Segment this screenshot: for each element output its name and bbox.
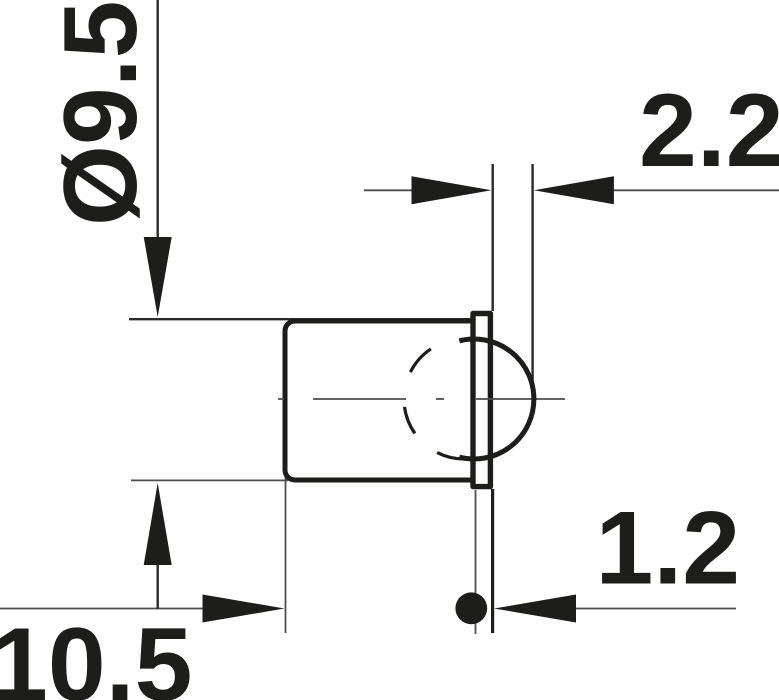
svg-text:10.5: 10.5 (0, 607, 192, 700)
svg-text:1.2: 1.2 (596, 491, 741, 607)
svg-text:Ø9.5: Ø9.5 (43, 1, 159, 226)
svg-text:2.2: 2.2 (639, 73, 779, 189)
